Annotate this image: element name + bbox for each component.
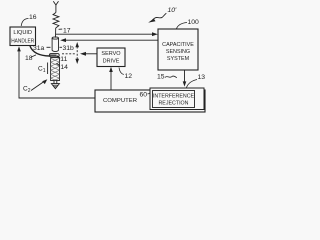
svg-text:60: 60 [140, 92, 148, 99]
svg-text:CAPACITIVE: CAPACITIVE [162, 42, 194, 48]
svg-text:10′: 10′ [168, 7, 178, 14]
label 17 dash [59, 28, 63, 30]
svg-text:100: 100 [188, 19, 200, 26]
block: computer 60 [95, 90, 205, 112]
probe body 14 (crosshatched) [51, 58, 60, 81]
label 11 leader [57, 56, 60, 59]
svg-text:SYSTEM: SYSTEM [167, 56, 190, 62]
svg-text:SENSING: SENSING [166, 49, 190, 55]
label 31a dash [47, 46, 51, 48]
wire: sensing system to interference rejection (arrow down) [183, 70, 187, 87]
block: servo drive 12 [97, 48, 125, 67]
wire: servo drive to carriage (arrow left) [80, 52, 97, 56]
capacitance C2 arrow [31, 79, 47, 90]
label 31b dash [60, 46, 63, 48]
svg-text:17: 17 [63, 27, 71, 34]
svg-text:14: 14 [60, 64, 68, 71]
flexible tube squiggle 17 (resistor-like zigzag) [53, 13, 59, 29]
block: interference rejection (double border) [150, 88, 204, 110]
svg-text:12: 12 [125, 73, 133, 80]
collar disc 11 [49, 54, 59, 57]
wire: computer to liquid handler (arrow up into box) [17, 46, 95, 98]
svg-text:LIQUID: LIQUID [13, 30, 32, 36]
wire: sensing system to probe (arrow left) [64, 39, 158, 41]
svg-text:31a: 31a [33, 45, 45, 52]
svg-text:31b: 31b [63, 45, 75, 52]
svg-text:11: 11 [60, 56, 67, 63]
svg-text:REJECTION: REJECTION [158, 101, 188, 107]
wire: probe to capacitive sensing system (arrow right) [56, 33, 154, 35]
svg-text:13: 13 [198, 74, 206, 81]
svg-text:18: 18 [25, 55, 33, 62]
svg-text:16: 16 [29, 14, 37, 21]
probe stem [54, 81, 57, 84]
svg-text:HANDLER: HANDLER [11, 38, 34, 44]
label 100 leader [177, 23, 188, 29]
block: capacitive sensing system 100 [158, 29, 198, 70]
wire: chevron to squiggle [55, 5, 57, 13]
label 12 leader [119, 68, 124, 75]
capacitance C1 plate [47, 63, 49, 75]
label 18 tick [31, 55, 36, 57]
label 14 leader [56, 64, 60, 67]
svg-text:DRIVE: DRIVE [103, 59, 120, 65]
label 16 leader [21, 19, 28, 27]
label 60 leader [148, 91, 151, 94]
dashed link probe to motion arrow [62, 53, 76, 55]
label 10 squiggle arrow [148, 13, 166, 22]
svg-text:SERVO: SERVO [101, 51, 121, 57]
label 13 leader [187, 80, 198, 88]
wire: squiggle to probe top [55, 28, 57, 38]
probe tip (hatched cone) [51, 84, 59, 89]
supply arrow into flexible line (open chevron pointing down) [53, 1, 58, 5]
tube from liquid handler to probe (18) [30, 46, 50, 56]
probe upper cylinder [52, 37, 58, 52]
label 15 squiggle leader [165, 76, 177, 78]
svg-text:C1: C1 [38, 66, 46, 74]
vertical motion double arrow (dashed) [75, 42, 79, 64]
svg-text:COMPUTER: COMPUTER [103, 98, 137, 104]
svg-text:C2: C2 [23, 86, 31, 94]
svg-text:INTERFERENCE: INTERFERENCE [153, 94, 195, 100]
block: liquid handler 16 [10, 27, 36, 46]
svg-text:15: 15 [157, 74, 165, 81]
wire: computer to servo drive (arrow up) [109, 67, 113, 90]
